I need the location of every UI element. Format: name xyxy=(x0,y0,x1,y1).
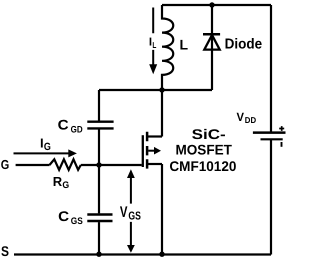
wire drain vertical xyxy=(161,90,163,137)
current arrow I_G xyxy=(14,152,69,154)
voltage arrow V_GS xyxy=(127,169,135,178)
wire gate right xyxy=(81,164,142,166)
svg-text:S: S xyxy=(1,243,9,259)
svg-text:G: G xyxy=(44,141,51,153)
diode D xyxy=(211,5,213,33)
battery minus tick xyxy=(281,142,283,147)
svg-text:L: L xyxy=(180,36,189,52)
svg-text:V: V xyxy=(237,110,245,124)
wire right rail upper xyxy=(270,5,272,133)
svg-text:GS: GS xyxy=(128,210,141,222)
battery VDD bottom plate xyxy=(261,138,283,140)
svg-text:C: C xyxy=(58,116,69,132)
inductor L xyxy=(162,5,173,90)
node source rail junction right xyxy=(159,252,164,257)
svg-text:C: C xyxy=(58,208,69,224)
svg-text:L: L xyxy=(152,40,156,50)
battery VDD top plate xyxy=(253,131,286,134)
transistor Q1 body arrow xyxy=(148,150,154,152)
wire top rail xyxy=(162,4,271,6)
node source rail junction left xyxy=(96,252,101,257)
node diode top junction xyxy=(209,2,214,7)
svg-text:G: G xyxy=(62,180,69,191)
node gate junction xyxy=(96,162,101,167)
svg-text:Diode: Diode xyxy=(225,37,263,53)
wire source vertical xyxy=(161,164,163,255)
svg-text:MOSFET: MOSFET xyxy=(175,141,232,157)
wire right rail lower xyxy=(270,139,272,254)
wire mid (drain net) xyxy=(99,89,212,91)
wire S rail xyxy=(14,253,271,255)
wire gate left xyxy=(16,164,50,166)
svg-text:G: G xyxy=(1,157,10,172)
resistor R_G xyxy=(50,159,81,170)
transistor Q1 source stub xyxy=(147,163,162,165)
svg-text:DD: DD xyxy=(245,115,256,125)
svg-text:R: R xyxy=(53,174,63,189)
capacitor C_GD xyxy=(98,90,100,121)
svg-text:CMF10120: CMF10120 xyxy=(169,158,236,174)
capacitor C_GS xyxy=(98,165,100,213)
battery plus sign xyxy=(279,126,284,131)
transistor Q1 channel segments xyxy=(146,132,149,169)
svg-text:GS: GS xyxy=(71,216,83,227)
svg-text:V: V xyxy=(120,204,128,221)
current arrow I_L xyxy=(152,8,154,66)
transistor Q1 SiC-MOSFET gate bar xyxy=(142,135,144,167)
svg-text:GD: GD xyxy=(71,124,83,135)
transistor Q1 drain stub xyxy=(147,135,162,137)
svg-text:SiC-: SiC- xyxy=(192,126,226,142)
node drain junction xyxy=(159,87,164,92)
